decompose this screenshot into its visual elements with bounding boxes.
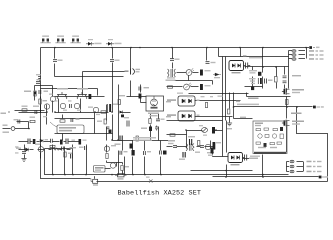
svg-text:Babellfish XA252 SET: Babellfish XA252 SET <box>118 190 202 198</box>
